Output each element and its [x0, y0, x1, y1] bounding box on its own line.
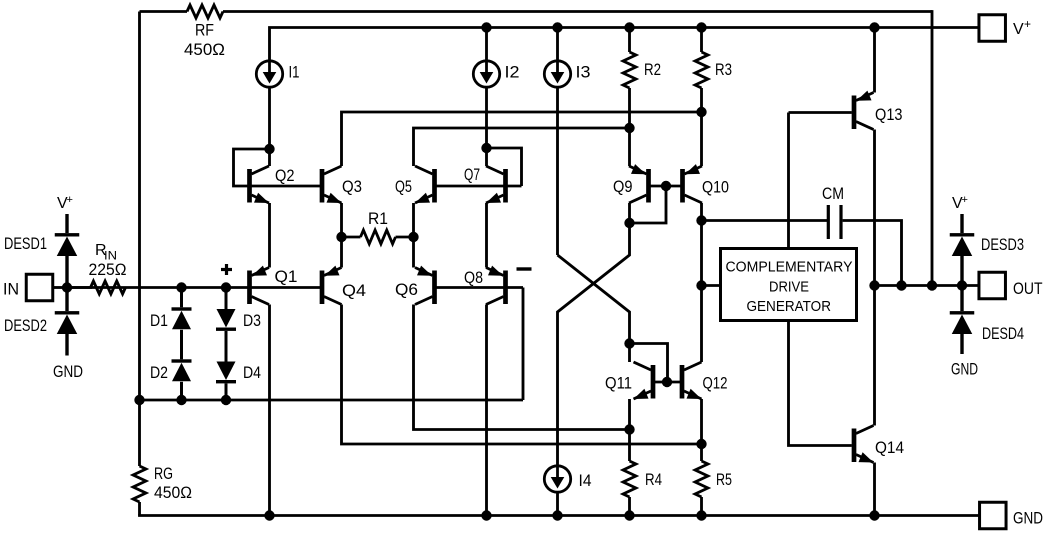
node: D4 bottom: [221, 395, 231, 405]
svg-text:D3: D3: [243, 311, 261, 330]
svg-text:OUT: OUT: [1013, 279, 1043, 298]
diode DESD4: [960, 286, 963, 312]
wire: top feedback rail right segment: [223, 10, 932, 13]
svg-text:DESD4: DESD4: [982, 324, 1024, 343]
svg-text:I3: I3: [576, 63, 591, 82]
wire: CDG bottom to Q14 base: [789, 321, 852, 446]
wire: Q9/Q10 base tie: [651, 185, 681, 188]
wire: Q6 collector to R4 node: [414, 305, 630, 430]
svg-text:V: V: [1013, 21, 1024, 38]
current source I3: [544, 61, 570, 87]
wire: RG top lead: [138, 400, 141, 466]
wire: Q14 collector riser to output node: [873, 286, 876, 426]
svg-text:Q13: Q13: [875, 105, 903, 124]
wire: R2 top lead: [628, 28, 631, 53]
wire: RIN to diode clamp nodes and Q1 base: [67, 286, 92, 289]
wire: Q9 collector drop: [628, 203, 631, 223]
wire: Q11/Q12 base tie: [655, 381, 680, 384]
transistor Q3: [320, 166, 342, 203]
current source I2: [473, 61, 499, 87]
wire: Q2 emitter to Q1 emitter: [268, 203, 271, 268]
node: R5 on ground rail: [696, 510, 706, 520]
svg-text:+: +: [1024, 17, 1031, 31]
node: RF feedback on output: [927, 280, 937, 290]
wire: input base rail from IN node to Q4: [67, 286, 320, 289]
resistor RG: [133, 466, 146, 502]
wire: R2 bottom lead to node: [628, 88, 631, 128]
svg-text:Q7: Q7: [464, 165, 480, 184]
wire: Q9 emitter riser: [628, 128, 631, 166]
node: RF/RG junction on inverting rail: [134, 395, 144, 405]
svg-text:R2: R2: [644, 60, 661, 79]
wire: left feedback vertical: [138, 12, 141, 401]
resistor R3: [695, 52, 708, 88]
svg-text:450Ω: 450Ω: [184, 40, 225, 59]
node: Q9/Q10 base: [661, 181, 671, 191]
transistor Q13: [852, 91, 874, 130]
svg-text:RG: RG: [154, 464, 173, 483]
wire: output rail: [875, 284, 980, 287]
current source I1: [256, 61, 282, 87]
svg-text:COMPLEMENTARY: COMPLEMENTARY: [726, 259, 853, 276]
node: Q11/Q12 base: [662, 377, 672, 387]
wire: R3 top lead: [700, 28, 703, 53]
diode DESD3: [960, 214, 963, 233]
wire: Q1 collector down to ground rail: [268, 305, 271, 516]
diode chain D1: [180, 288, 183, 308]
node: Q4 collector / Q12 emitter / R5: [696, 439, 706, 449]
diode chain D2: [180, 330, 183, 360]
node: R3 top on V+ rail: [696, 22, 706, 32]
wire: ground rail: [138, 514, 979, 517]
wire: Q4 collector to R5 node: [342, 305, 702, 445]
node: Q2 collector-base tie: [264, 144, 274, 154]
node: ESD on output: [957, 280, 967, 290]
svg-text:Q2: Q2: [275, 166, 295, 185]
node: Q6 collector / Q11 emitter / R4: [624, 424, 634, 434]
svg-text:I2: I2: [505, 63, 520, 82]
wire: Q11 emitter to R4: [628, 399, 631, 430]
block: complementary drive generator: [721, 249, 857, 321]
node: D3 top: [221, 282, 231, 292]
wire: Q5 collector rail to R2 node: [414, 128, 630, 166]
wire: inverting input rail: [140, 399, 524, 402]
node: Q1 collector on ground rail: [264, 510, 274, 520]
wire: Q14 emitter to ground rail: [873, 463, 876, 516]
node: second stage output to CDG: [696, 280, 706, 290]
svg-text:+: +: [962, 194, 968, 206]
svg-text:Q9: Q9: [613, 177, 633, 196]
diode chain D4: [225, 331, 228, 362]
wire: CDG top to Q13 base vertical: [787, 113, 790, 249]
transistor Q10: [680, 164, 702, 203]
svg-text:CM: CM: [822, 184, 844, 203]
svg-text:Q12: Q12: [703, 374, 728, 393]
wire: Q2 collector diagonal riser: [268, 149, 271, 166]
wire: Q3 emitter to R1 left node: [340, 203, 343, 237]
wire: Q10 emitter riser: [700, 112, 703, 166]
node: I2 top on V+ rail: [481, 22, 491, 32]
node: Q10 collector / compensation: [696, 215, 706, 225]
wire: Q4 emitter to R1 left node: [340, 237, 343, 268]
terminal box V+: [979, 15, 1006, 42]
wire: IN box to node: [53, 286, 67, 289]
wire: Q5 emitter to R1 right node: [412, 203, 415, 237]
capacitor CM: [827, 205, 843, 239]
node: R3 bottom / Q3 collector / Q10 emitter: [696, 107, 706, 117]
transistor Q12: [680, 362, 702, 399]
svg-text:+: +: [67, 194, 73, 206]
resistor RF: [187, 5, 223, 18]
wire: Q7 collector diagonal riser: [485, 148, 488, 166]
svg-text:450Ω: 450Ω: [154, 483, 192, 502]
resistor R4: [623, 461, 636, 497]
wire: feedback vertical to output node: [931, 10, 934, 285]
transistor Q11: [634, 362, 656, 399]
wire: CDG left input stub: [702, 284, 721, 287]
node: Q8 collector on ground rail: [481, 510, 491, 520]
node: R4 on ground rail: [624, 510, 634, 520]
svg-text:D1: D1: [150, 311, 168, 330]
wire: I2 lead from V+ rail: [485, 28, 488, 62]
wire: cross-over right-to-left diagonal: [558, 255, 630, 344]
wire: R5 bottom lead: [700, 497, 703, 516]
svg-text:I4: I4: [579, 471, 592, 490]
wire: I3 vertical down to cross-over: [556, 87, 559, 256]
svg-text:Q14: Q14: [875, 438, 904, 457]
resistor R2: [623, 52, 636, 88]
transistor Q2: [247, 166, 269, 203]
svg-text:D2: D2: [150, 363, 168, 382]
svg-text:Q6: Q6: [395, 280, 418, 299]
transistor Q14: [852, 426, 874, 463]
wire: I2 to Q7 collector node: [485, 87, 488, 149]
svg-text:RF: RF: [195, 21, 214, 40]
symbol - (inverting input): [517, 267, 532, 270]
wire: Q9/Q10 base loop down: [630, 186, 667, 223]
node: Q13 emitter riser on V+ rail: [869, 22, 879, 32]
wire: Q6/Q8 base rail to inverting node corner: [437, 286, 524, 289]
wire: RG bottom lead: [138, 502, 141, 516]
svg-text:I1: I1: [289, 63, 300, 82]
svg-text:R4: R4: [645, 470, 662, 489]
wire: R1 right lead: [396, 236, 414, 239]
resistor R5: [695, 461, 708, 497]
wire: I3 lead from V+ rail: [556, 28, 559, 62]
wire: Q8 collector down to ground rail: [485, 305, 488, 516]
terminal box OUT: [979, 272, 1006, 299]
svg-text:D4: D4: [243, 363, 261, 382]
wire: CM right plate to output node: [843, 221, 902, 286]
node: CM on output: [896, 280, 906, 290]
wire: R4 top lead: [628, 430, 631, 462]
wire: Q11 base-collector loop: [630, 344, 668, 383]
diode DESD2: [65, 288, 68, 312]
resistor R1: [361, 230, 396, 244]
wire: Q8 base down to feedback rail: [522, 288, 525, 401]
node: R1 left / Q3-Q4 emitters: [336, 232, 346, 242]
svg-text:DESD1: DESD1: [4, 234, 47, 253]
node: R2 bottom / Q5 collector / Q9 emitter: [624, 123, 634, 133]
svg-text:R3: R3: [715, 60, 732, 79]
svg-text:Q1: Q1: [275, 267, 298, 286]
transistor Q7: [486, 166, 508, 203]
symbol + (non-inverting input): [221, 264, 232, 275]
node: Q14 emitter on ground rail: [869, 510, 879, 520]
svg-text:IN: IN: [3, 280, 19, 299]
wire: Q7 base-collector loop: [487, 148, 522, 186]
wire: Q7 emitter to Q8 emitter: [485, 203, 488, 268]
node: IN / ESD / RIN: [62, 282, 72, 292]
terminal box IN: [26, 274, 53, 301]
node: Q13/Q14 collectors output: [869, 280, 879, 290]
wire: R3 bottom lead to node: [700, 88, 703, 112]
node: D1 top: [176, 282, 186, 292]
wire: Q10 collector to CM left plate: [702, 219, 828, 222]
node: Q11 collector-base tie: [624, 338, 634, 348]
svg-text:GND: GND: [1013, 509, 1043, 528]
svg-text:Q10: Q10: [702, 178, 729, 197]
diode DESD1: [65, 214, 68, 233]
svg-text:225Ω: 225Ω: [89, 260, 127, 279]
resistor RIN: [91, 281, 126, 294]
transistor Q5: [415, 166, 437, 203]
svg-text:Q5: Q5: [395, 177, 412, 196]
transistor Q6: [415, 266, 437, 305]
svg-text:DESD3: DESD3: [981, 235, 1024, 254]
wire: Q12 collector riser to CDG tap: [700, 221, 703, 363]
svg-text:Q4: Q4: [342, 281, 366, 300]
transistor Q4: [320, 266, 342, 305]
wire: R5 top lead: [700, 444, 703, 461]
wire: I1 to Q2 collector node: [268, 87, 271, 150]
diode chain D3: [225, 288, 228, 310]
wire: top feedback rail left segment: [140, 10, 188, 13]
wire: Q3 collector rail to R3 node: [342, 112, 702, 166]
node: R2 top on V+ rail: [624, 22, 634, 32]
wire: R4 bottom lead: [628, 497, 631, 516]
wire: Q10 collector drop: [700, 203, 703, 221]
svg-text:DRIVE: DRIVE: [769, 279, 809, 296]
wire: Q6 emitter to R1 right node: [412, 237, 415, 268]
wire: R1 left lead: [342, 236, 361, 239]
wire: I1 riser corner to V+ rail: [270, 28, 980, 62]
node: D2 bottom: [176, 395, 186, 405]
node: Q7 collector-base tie: [481, 143, 491, 153]
node: Q9 collector-base tie: [624, 218, 634, 228]
node: R1 right / Q5-Q6 emitters: [408, 232, 418, 242]
svg-text:Q3: Q3: [342, 177, 362, 196]
node: I3 top on V+ rail: [552, 22, 562, 32]
svg-text:GND: GND: [951, 360, 978, 379]
wire: Q13 collector to output node: [873, 130, 876, 286]
wire: Q2 base-collector loop: [234, 149, 321, 186]
wire: Q11 collector drop: [628, 344, 631, 363]
current source I4: [544, 466, 570, 492]
svg-text:Q11: Q11: [605, 374, 632, 393]
transistor Q8: [486, 266, 508, 305]
terminal box GND: [980, 502, 1007, 529]
svg-text:DESD2: DESD2: [4, 316, 47, 335]
svg-text:Q8: Q8: [464, 268, 483, 287]
wire: Q12 emitter to R5: [700, 399, 703, 444]
svg-text:R5: R5: [716, 470, 732, 489]
wire: Q13 base from corner: [789, 111, 852, 114]
svg-text:R1: R1: [368, 209, 388, 228]
transistor Q1: [247, 266, 269, 305]
wire: cross-over left-to-right diagonal: [558, 223, 630, 466]
wire: I4 bottom lead: [556, 492, 559, 515]
wire: Q5/Q7 base rail: [437, 185, 522, 188]
wire: Q13 emitter riser to V+ rail: [873, 28, 876, 93]
svg-text:GENERATOR: GENERATOR: [747, 298, 832, 315]
node: I4 on ground rail: [552, 510, 562, 520]
transistor Q9: [629, 164, 651, 203]
svg-text:GND: GND: [53, 362, 83, 381]
